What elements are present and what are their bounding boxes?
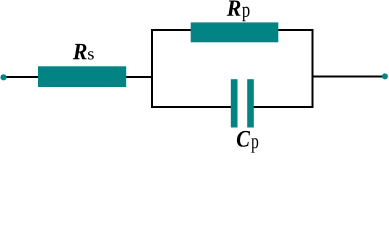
wire: parallel-loop left vertical branch: [151, 29, 153, 108]
label Cp: subscript p: [251, 138, 258, 153]
wire: right lead from parallel section to output terminal: [313, 76, 386, 78]
label Rs: letter R: [73, 44, 87, 59]
node: output terminal dot: [382, 73, 388, 79]
capacitor Cp left plate: [231, 79, 238, 127]
capacitor Cp right plate: [247, 79, 254, 127]
wire: bottom branch right segment from capacitor: [253, 106, 314, 108]
label Rp: letter R: [227, 1, 241, 16]
wire: bottom branch left segment to capacitor: [151, 106, 232, 108]
resistor Rp (parallel top branch): [191, 22, 279, 42]
wire: parallel-loop right vertical branch: [312, 29, 314, 108]
label Rs: subscript s: [88, 51, 94, 59]
label Rp: subscript p: [242, 7, 249, 22]
resistor Rs (series): [38, 66, 126, 87]
node: input terminal dot: [0, 74, 6, 80]
wire: parallel-loop top branch: [151, 29, 314, 31]
label Cp: letter C: [237, 131, 250, 147]
wire: left lead from input terminal to parallel section: [4, 76, 153, 78]
